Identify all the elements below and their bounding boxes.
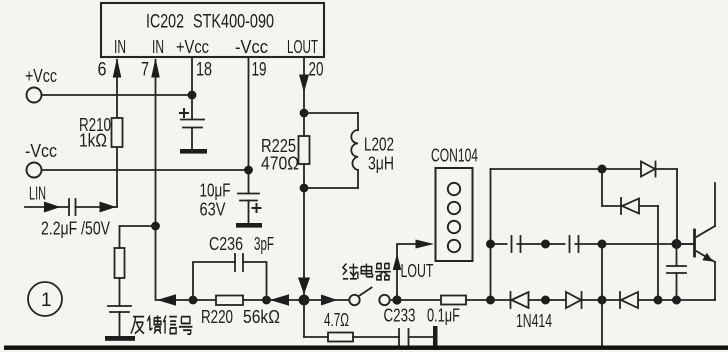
char hao [179, 317, 193, 335]
wire pin7 vertical [155, 60, 157, 300]
char xin [163, 316, 177, 334]
wire cap to pin6 line [76, 206, 118, 208]
node rail x545 [541, 296, 550, 305]
node pin20 lower junction [300, 184, 309, 193]
wire C233 to ground bar [409, 336, 434, 338]
wire to relay contact [304, 299, 349, 301]
svg-text:-Vcc: -Vcc [25, 141, 57, 161]
node C236 left [189, 296, 198, 305]
CON104 pin circle 2 [448, 202, 460, 214]
wire 4.7ohm to C233 [353, 336, 399, 338]
svg-text:C236: C236 [209, 234, 243, 254]
svg-text:1kΩ: 1kΩ [79, 131, 107, 151]
plus sign pin18 cap [180, 109, 188, 117]
svg-text:3μH: 3μH [368, 154, 394, 174]
node pin19 junction [244, 166, 253, 175]
wire +Vcc rail [42, 94, 193, 96]
wire switch to node [390, 299, 441, 301]
svg-text:CON104: CON104 [431, 146, 478, 166]
svg-text:3pF: 3pF [254, 234, 274, 254]
diode D2 [566, 292, 581, 308]
chinese label: relay [343, 264, 391, 280]
svg-text:19: 19 [252, 60, 267, 81]
svg-text:6: 6 [98, 60, 107, 81]
LIN arrow 1 [44, 202, 61, 213]
svg-text:1: 1 [41, 290, 52, 311]
capacitor 10uF/63V at pin19 [238, 193, 259, 195]
svg-text:IC202: IC202 [146, 12, 184, 33]
svg-text:2.2μF /50V: 2.2μF /50V [41, 219, 110, 239]
CON104 pin circle 1 [448, 183, 460, 195]
arrow into pin7 line [157, 294, 176, 306]
relay contact circle 1 [349, 295, 359, 305]
inductor L202 wires [304, 112, 358, 114]
svg-text:20: 20 [309, 60, 324, 81]
-Vcc terminal circle [27, 163, 42, 178]
CON104 pin circle 4 [448, 240, 460, 252]
wire output bottom rail [466, 299, 715, 301]
svg-text:7: 7 [141, 60, 149, 81]
wire left riser x490 [490, 169, 492, 300]
node mid rail x676 [672, 239, 682, 249]
LIN arrow 2 [100, 202, 117, 213]
wire second row to riser [639, 205, 658, 207]
svg-text:STK400-090: STK400-090 [193, 12, 274, 33]
wire riser x658 [657, 206, 659, 300]
wire pin18 vertical [191, 57, 193, 119]
ground (feedback cap) [105, 336, 135, 341]
capacitor at x676 [676, 244, 678, 266]
pin20 arrow down to node [298, 278, 310, 295]
diode D1 1N414 [510, 292, 512, 308]
node pin20 top junction [300, 109, 309, 118]
+Vcc terminal circle [27, 88, 42, 103]
node rail x602 [598, 296, 607, 305]
arrow into C236 right node [270, 294, 289, 306]
diode D5 second row [620, 198, 622, 214]
resistor R220 [216, 296, 243, 306]
node C236 right [262, 296, 271, 305]
op-amp U1 IC202 STK400-090 box [101, 3, 324, 57]
svg-text:LIN: LIN [29, 184, 46, 204]
svg-text:18: 18 [196, 60, 212, 81]
svg-text:LOUT: LOUT [287, 37, 318, 57]
svg-text:56kΩ: 56kΩ [243, 307, 280, 327]
wire relay coil return to bottom [601, 300, 603, 348]
resistor 4.7 ohm [328, 333, 353, 342]
node pin20 bottom junction [299, 295, 310, 306]
wire right riser x677 [676, 169, 678, 244]
ground (pin18 cap) [180, 149, 207, 154]
svg-text:C233: C233 [384, 306, 416, 326]
CON104 pin circle 3 [448, 221, 460, 233]
wire -Vcc rail [42, 169, 249, 171]
node top rail x602 [598, 165, 607, 174]
wire top rail [491, 168, 642, 170]
inductor L202 coil [351, 130, 358, 170]
resistor feedback (unlabeled) [115, 248, 125, 278]
ground (10uF cap) [236, 223, 262, 228]
svg-text:IN: IN [152, 37, 164, 57]
wire second row [601, 169, 603, 206]
relay lever [359, 288, 372, 297]
svg-text:LOUT: LOUT [401, 261, 434, 281]
node mid rail x602 [598, 240, 607, 249]
chinese label: feedback signal [131, 316, 193, 335]
node feedback tap on pin7 [151, 222, 160, 231]
svg-text:+Vcc: +Vcc [176, 37, 209, 57]
wire pin19 vertical [248, 57, 250, 193]
circled 1 marker [28, 282, 62, 316]
wire feedback branch [120, 226, 156, 248]
svg-text:4.7Ω: 4.7Ω [324, 310, 349, 330]
diode D3 [619, 292, 621, 308]
pin 7 arrow into IC [151, 58, 160, 78]
node pin18 junction [188, 91, 197, 100]
node mid rail x545 [541, 240, 550, 249]
svg-text:R220: R220 [201, 307, 233, 327]
wire emitter to bottom rail [714, 262, 716, 300]
capacitor mid rail 2 [566, 235, 575, 253]
svg-text:10μF: 10μF [200, 181, 231, 201]
capacitor feedback [108, 305, 131, 307]
plus sign 10uF cap [253, 204, 261, 212]
arrow into CON104 [416, 240, 435, 249]
svg-text:1N414: 1N414 [516, 311, 552, 331]
char fan [131, 317, 144, 334]
wire pin6 vertical [116, 60, 118, 207]
wire pin20 vertical [303, 57, 305, 300]
LIN input wire [25, 206, 69, 208]
char kui [147, 316, 161, 334]
wire resistor to cap [119, 278, 121, 306]
node mid rail x490 [486, 240, 495, 249]
svg-text:-Vcc: -Vcc [235, 37, 268, 57]
wire feedback bottom rail [157, 299, 304, 301]
wire riser x602 lower [601, 244, 603, 300]
bottom border bar [4, 346, 728, 350]
capacitor 2.2uF/50V [68, 199, 70, 215]
wire top rail to right corner [656, 168, 678, 170]
relay switch arrow [321, 295, 338, 306]
ground bar C233 [433, 326, 438, 350]
capacitor C electrolytic at pin18 [181, 119, 204, 121]
node rail x490 [486, 296, 495, 305]
transistor Q1 [677, 243, 695, 245]
pin 6 arrow into IC [113, 58, 122, 78]
diode D4 top rail [641, 162, 655, 177]
svg-text:L202: L202 [364, 135, 394, 155]
resistor R210 [112, 118, 123, 147]
char dian [361, 264, 372, 277]
svg-text:470Ω: 470Ω [261, 154, 299, 174]
node rail x676 [672, 296, 681, 305]
svg-text:IN: IN [114, 37, 126, 57]
relay contact circle 2 [379, 295, 389, 305]
capacitor mid rail 1 [508, 235, 517, 253]
resistor R225 [299, 136, 310, 164]
node rail x658 [654, 296, 663, 305]
char ji [343, 264, 358, 279]
svg-text:+Vcc: +Vcc [25, 66, 57, 86]
wire cap to bottom rail [676, 273, 678, 300]
resistor on output rail (unlabeled) [441, 296, 466, 305]
capacitor C236 loop [193, 262, 235, 300]
transistor emitter arrow [702, 253, 712, 262]
capacitor C233 0.1uF [398, 329, 400, 345]
wire mid rail [491, 243, 695, 245]
node LOUT junction [392, 295, 401, 304]
wire zobel branch [303, 300, 305, 337]
LOUT up arrow [393, 254, 402, 271]
connector CON104 box [436, 168, 473, 261]
wire LOUT to CON104 [397, 244, 430, 300]
svg-text:0.1μF: 0.1μF [427, 306, 460, 326]
svg-text:63V: 63V [200, 200, 226, 220]
pin 20 arrow down [299, 75, 309, 93]
char qi [375, 264, 391, 280]
